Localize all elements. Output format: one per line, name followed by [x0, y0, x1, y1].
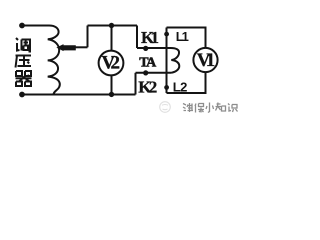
- svg-text:V2: V2: [102, 53, 121, 74]
- wire K2 horizontal: [136, 72, 172, 74]
- voltmeter V2 lead top: [111, 26, 113, 52]
- current transformer TA primary bar L1-L2: [166, 28, 168, 94]
- autotransformer T1 variac winding: [48, 32, 60, 94]
- wire top rail from wiper to K1 drop: [88, 25, 138, 27]
- voltmeter V1 body: [193, 48, 217, 72]
- terminal dot L1: [164, 32, 169, 37]
- voltmeter V2 body: [99, 51, 124, 76]
- wire K1 horizontal to TA coil: [137, 47, 171, 49]
- wire L2 bottom run to V1: [167, 72, 206, 93]
- svg-text:V1: V1: [197, 50, 216, 71]
- svg-text:K2: K2: [138, 78, 157, 97]
- terminal dot L2: [164, 85, 169, 90]
- watermark text gray layer: [183, 103, 238, 113]
- junction dot V2 top: [109, 23, 114, 28]
- wiper arrow of variac: [56, 44, 76, 51]
- wire top-left from input terminal into variac coil: [22, 26, 59, 33]
- terminal dot input top: [19, 23, 25, 29]
- watermark text white emboss layer: [184, 103, 239, 113]
- wire K2 drop to bottom rail: [135, 73, 137, 95]
- svg-text:TA: TA: [139, 56, 157, 71]
- char 调: [16, 38, 18, 40]
- wire K1 drop: [136, 26, 138, 49]
- wire wiper arm horizontal: [74, 46, 88, 48]
- wire bottom-left from input terminal along bottom rail: [22, 94, 136, 96]
- label 调压器 (variac) drawn as strokes: [16, 38, 32, 86]
- voltmeter V2 lead bottom: [111, 76, 113, 95]
- watermark logo circle: [160, 102, 171, 113]
- terminal dot input bottom: [19, 92, 25, 98]
- char 器: [16, 71, 22, 76]
- svg-text:K1: K1: [141, 28, 159, 47]
- svg-text:L2: L2: [173, 80, 188, 95]
- terminal dot K2: [143, 70, 148, 75]
- terminal dot K1: [143, 46, 148, 51]
- svg-text:L1: L1: [176, 29, 189, 44]
- wire L1 top run to V1: [167, 28, 206, 48]
- current transformer TA secondary winding: [171, 48, 179, 73]
- char 压: [16, 55, 32, 57]
- junction dot V2 bottom: [109, 92, 114, 97]
- wire wiper riser to top rail: [87, 26, 89, 48]
